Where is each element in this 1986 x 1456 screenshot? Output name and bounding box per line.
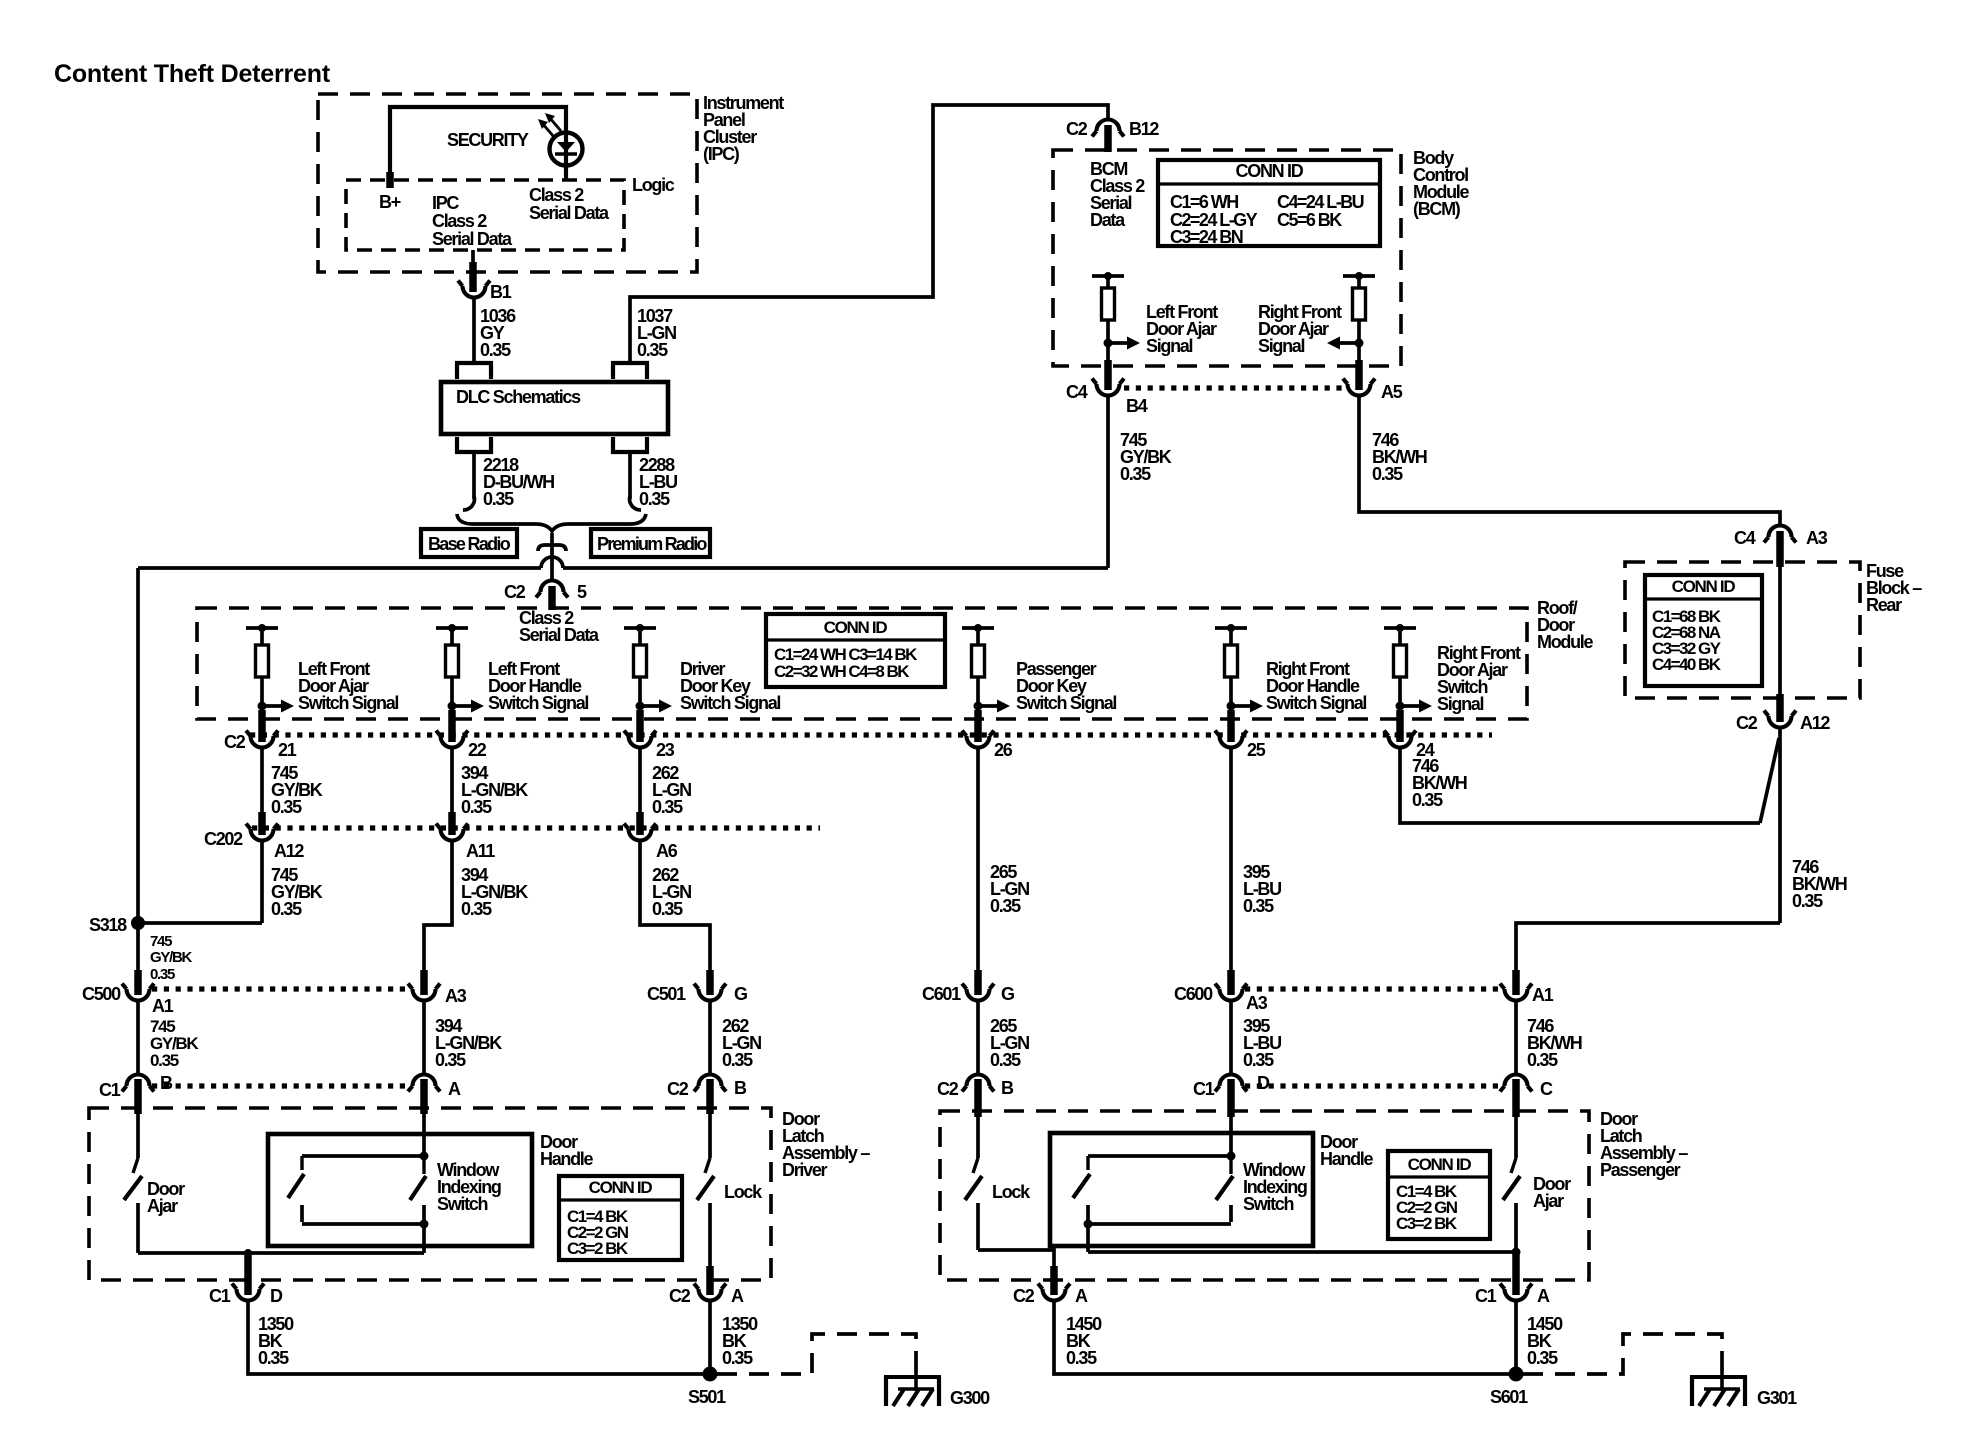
wire lock driver top	[708, 1114, 712, 1158]
svg-text:A12: A12	[274, 841, 304, 861]
resistor passenger door key sw	[972, 645, 985, 677]
svg-text:Ajar: Ajar	[147, 1196, 178, 1216]
label Roof Door Module	[1537, 598, 1593, 652]
wire 746 A12 down	[1778, 727, 1782, 923]
resistor right front door ajar	[1353, 288, 1366, 320]
svg-text:0.35: 0.35	[271, 797, 302, 817]
svg-text:Switch: Switch	[1243, 1194, 1294, 1214]
wire S318 down	[136, 927, 140, 974]
arrow left front door handle sw signal	[452, 700, 484, 713]
svg-text:Switch: Switch	[437, 1194, 488, 1214]
svg-text:B12: B12	[1129, 119, 1159, 139]
wire C1 A to S601	[1514, 1300, 1518, 1374]
brace radios	[457, 514, 646, 531]
rail left front door ajar	[1092, 272, 1124, 280]
pin stub 23	[636, 710, 644, 742]
svg-text:C4: C4	[1734, 528, 1756, 548]
label Logic	[632, 175, 675, 195]
svg-text:Class 2: Class 2	[432, 211, 487, 231]
label Door Ajar passenger	[1533, 1174, 1571, 1211]
svg-text:0.35: 0.35	[483, 489, 514, 509]
wire C2 A to S601	[1054, 1300, 1511, 1374]
svg-text:B1: B1	[490, 282, 512, 302]
svg-text:S318: S318	[89, 915, 127, 935]
switch indexing right passenger	[1216, 1156, 1233, 1222]
wire indexing bottom rail driver	[302, 1222, 424, 1226]
arrow right front door handle sw signal	[1231, 700, 1263, 713]
wire C1 D to S501	[248, 1300, 705, 1374]
label 1036 GY 0.35	[480, 306, 516, 360]
label 394 L-GN/BK 0.35 A3 col	[435, 1016, 502, 1070]
svg-text:Content Theft Deterrent: Content Theft Deterrent	[54, 60, 331, 88]
conn-id box fuse block	[1645, 575, 1762, 686]
label 746 BK/WH 0.35 A5	[1372, 430, 1427, 484]
connector C500 A1	[82, 984, 174, 1017]
svg-text:0.35: 0.35	[480, 340, 511, 360]
label Window Indexing Switch passenger	[1243, 1160, 1307, 1214]
pin B+ stub	[386, 172, 394, 188]
wire indexing out passenger	[1086, 1224, 1090, 1252]
connector pin 22	[436, 731, 487, 761]
switch door ajar passenger	[1503, 1158, 1520, 1252]
wire D into indexing	[1229, 1117, 1233, 1156]
label Class 2 Serial Data logic	[529, 185, 610, 223]
svg-text:5: 5	[577, 582, 587, 602]
svg-text:G300: G300	[950, 1388, 990, 1408]
svg-text:C1: C1	[99, 1080, 121, 1100]
node right front door ajar sw signal	[1396, 702, 1405, 711]
pin stub B lock passenger	[974, 1079, 982, 1117]
svg-text:C2: C2	[504, 582, 526, 602]
label Door Handle driver	[540, 1132, 594, 1169]
title Content Theft Deterrent	[54, 60, 331, 88]
wire door ajar passenger top	[1514, 1117, 1518, 1158]
svg-text:Signal: Signal	[1146, 336, 1193, 356]
pin stub G C601	[974, 970, 982, 995]
svg-text:A: A	[731, 1286, 744, 1306]
svg-text:C5=6 BK: C5=6 BK	[1277, 210, 1342, 230]
splice S601	[1490, 1367, 1528, 1408]
wire radio tap	[550, 533, 554, 580]
pin A12 stub	[1776, 694, 1784, 722]
block Base Radio	[421, 529, 517, 557]
connector B1	[458, 281, 512, 303]
svg-text:GY/BK: GY/BK	[150, 949, 192, 966]
svg-text:B: B	[160, 1073, 173, 1093]
label Lock driver	[724, 1182, 763, 1202]
wire A1p down	[1514, 1000, 1518, 1074]
svg-text:0.35: 0.35	[722, 1348, 753, 1368]
label 746 BK/WH 0.35 A1p col	[1527, 1016, 1582, 1070]
svg-text:C600: C600	[1174, 984, 1213, 1004]
svg-text:0.35: 0.35	[637, 340, 668, 360]
connector row C500	[152, 986, 410, 991]
resistor left front door ajar sw	[256, 645, 269, 677]
wire A into indexing	[422, 1114, 426, 1156]
connector C2 5	[504, 581, 587, 603]
wire door ajar bottom rail driver	[138, 1251, 424, 1255]
node driver latch out	[244, 1249, 252, 1257]
connector A driver latch	[408, 1075, 461, 1100]
pin stub A5	[1355, 360, 1363, 390]
connector C1 B driver	[99, 1073, 173, 1100]
svg-text:Data: Data	[1090, 210, 1126, 230]
svg-text:Logic: Logic	[632, 175, 675, 195]
svg-text:C: C	[1540, 1079, 1553, 1099]
svg-text:Ajar: Ajar	[1533, 1191, 1564, 1211]
pin stub C1 D driver	[244, 1253, 252, 1295]
svg-text:Base Radio: Base Radio	[428, 534, 511, 554]
svg-text:A: A	[1075, 1286, 1088, 1306]
svg-text:0.35: 0.35	[1527, 1050, 1558, 1070]
wire A3 down	[422, 1000, 426, 1074]
ground G301	[1690, 1371, 1797, 1408]
connector A3 C500row	[408, 984, 467, 1007]
svg-text:Serial Data: Serial Data	[529, 203, 610, 223]
wire 746 A5 to fuse block	[1359, 395, 1780, 527]
wire S601 to G301 dashed	[1523, 1334, 1722, 1374]
module box BCM	[1053, 150, 1401, 366]
label 395 L-BU 0.35 col25	[1243, 862, 1281, 916]
svg-text:0.35: 0.35	[652, 899, 683, 919]
wire resistor-pin passenger door key sw	[976, 677, 980, 714]
svg-text:C3=2 BK: C3=2 BK	[567, 1239, 629, 1258]
label 265 L-GN 0.35 col26	[990, 862, 1029, 916]
svg-text:C4=40 BK: C4=40 BK	[1652, 655, 1722, 674]
svg-text:(BCM): (BCM)	[1413, 199, 1461, 219]
wire A1 down	[136, 1000, 140, 1074]
resistor left front door handle sw	[446, 645, 459, 677]
node indexing top driver	[420, 1152, 429, 1161]
pin stub 22	[448, 710, 456, 742]
svg-text:Premium Radio: Premium Radio	[597, 534, 707, 554]
svg-text:C1=6 WH: C1=6 WH	[1170, 192, 1238, 212]
connector C2 A12	[1736, 711, 1830, 734]
wire A12 to S318	[260, 840, 264, 923]
wire door ajar driver top	[136, 1114, 140, 1158]
ground G300	[884, 1371, 990, 1408]
pin stub C2 A passenger	[1050, 1266, 1058, 1295]
wire A6 jog to C501	[640, 840, 710, 974]
wire rail-resistor passenger door key sw	[976, 628, 980, 645]
wire rail to resistor 2	[1357, 276, 1361, 288]
connector row BCM bottom	[1124, 385, 1343, 390]
svg-text:A11: A11	[466, 841, 495, 861]
svg-text:S501: S501	[688, 1387, 726, 1407]
wire resistor to pin B4	[1106, 320, 1110, 368]
wire lock passenger jog	[978, 1250, 1054, 1268]
svg-text:0.35: 0.35	[722, 1050, 753, 1070]
svg-text:Lock: Lock	[724, 1182, 763, 1202]
label 262 L-GN 0.35 A6 col	[652, 865, 691, 919]
wire 746 col24	[1400, 747, 1760, 823]
label 1350 BK 0.35 left	[258, 1314, 294, 1368]
label 2288 L-BU 0.35	[639, 455, 677, 509]
label Window Indexing Switch driver	[437, 1160, 501, 1214]
rail driver door key sw	[624, 624, 656, 632]
pin stub 25	[1227, 710, 1235, 742]
connector C passenger latch	[1500, 1075, 1553, 1100]
connector C202 A11	[436, 824, 495, 862]
wire resistor-pin right front door handle sw	[1229, 677, 1233, 714]
wire IPC output	[471, 250, 475, 282]
block DLC Schematics	[441, 382, 668, 434]
svg-text:0.35: 0.35	[461, 797, 492, 817]
arrow right front door ajar signal	[1327, 337, 1359, 350]
svg-text:A1: A1	[1532, 985, 1554, 1005]
pin stub C500	[134, 970, 142, 995]
wire rail to resistor	[1106, 276, 1110, 288]
svg-text:C4: C4	[1066, 382, 1088, 402]
connector C202 A6	[624, 824, 678, 862]
LED light arrows	[538, 113, 561, 137]
wire resistor-pin driver door key sw	[638, 677, 642, 714]
label left front door ajar sw signal	[298, 659, 398, 713]
pin stub C1 A passenger	[1512, 1252, 1520, 1295]
svg-text:0.35: 0.35	[652, 797, 683, 817]
logic box	[346, 180, 624, 250]
label right front door handle sw signal	[1266, 659, 1366, 713]
pin stub A3 C500	[420, 970, 428, 995]
svg-text:Signal: Signal	[1258, 336, 1305, 356]
connector pin 26	[962, 731, 1013, 761]
svg-text:0.35: 0.35	[258, 1348, 289, 1368]
wire 394 col22	[450, 747, 454, 816]
svg-text:C2: C2	[1013, 1286, 1035, 1306]
svg-text:C501: C501	[647, 984, 686, 1004]
pin stub A driver latch	[420, 1079, 428, 1114]
module box door latch passenger	[940, 1111, 1589, 1280]
svg-text:Switch Signal: Switch Signal	[488, 693, 588, 713]
module box IPC	[318, 94, 697, 272]
connector pin 25	[1215, 731, 1266, 761]
svg-text:CONN ID: CONN ID	[1408, 1155, 1472, 1174]
label B+	[379, 192, 401, 212]
pin stub D passenger latch	[1227, 1079, 1235, 1117]
svg-text:0.35: 0.35	[461, 899, 492, 919]
wire indexing bottom rail passenger	[1088, 1222, 1231, 1226]
svg-text:0.35: 0.35	[1792, 891, 1823, 911]
svg-text:C2: C2	[1736, 713, 1758, 733]
conn-id box door latch driver	[559, 1176, 682, 1260]
svg-text:DLC Schematics: DLC Schematics	[456, 387, 581, 407]
svg-text:25: 25	[1247, 740, 1266, 760]
svg-text:26: 26	[994, 740, 1013, 760]
svg-text:Switch Signal: Switch Signal	[1266, 693, 1366, 713]
svg-text:A3: A3	[445, 986, 467, 1006]
label 1450 BK 0.35 left	[1066, 1314, 1102, 1368]
wire indexing to door ajar passenger	[1088, 1250, 1516, 1254]
pin 5 stub	[548, 586, 556, 610]
connector staple DLC bottom right	[613, 437, 647, 452]
pin stub A1 C600	[1512, 970, 1520, 995]
connector A1 C600row	[1500, 984, 1554, 1006]
svg-text:745: 745	[150, 933, 172, 950]
svg-text:C601: C601	[922, 984, 961, 1004]
switch lock driver	[697, 1158, 714, 1270]
module box Fuse Block Rear	[1625, 562, 1860, 698]
svg-text:Serial Data: Serial Data	[519, 625, 600, 645]
wire A11 jog to A3	[424, 840, 452, 974]
switch door ajar driver	[124, 1158, 142, 1253]
label 394 L-GN/BK 0.35 A11 col	[461, 865, 528, 919]
svg-text:C2: C2	[224, 732, 246, 752]
svg-text:C4=24 L-BU: C4=24 L-BU	[1277, 192, 1364, 212]
label Door Latch Assembly Driver	[782, 1109, 870, 1180]
svg-text:C500: C500	[82, 984, 121, 1004]
svg-text:C1: C1	[1475, 1286, 1497, 1306]
wire 745 col21	[260, 747, 264, 816]
svg-text:C2: C2	[937, 1079, 959, 1099]
pin stub G C501	[706, 970, 714, 995]
label 1350 BK 0.35 right	[722, 1314, 758, 1368]
connector C501 G	[647, 984, 747, 1005]
svg-text:A5: A5	[1381, 382, 1403, 402]
wire rail-resistor left front door ajar sw	[260, 628, 264, 645]
pin stub A3 C600	[1227, 970, 1235, 995]
svg-text:22: 22	[468, 740, 487, 760]
label passenger door key sw signal	[1016, 659, 1116, 713]
svg-text:A6: A6	[656, 841, 678, 861]
connector row C202	[252, 825, 820, 830]
conn-id box roof door module	[766, 614, 945, 687]
node indexing bottom driver	[420, 1220, 429, 1229]
label 745 GY/BK 0.35 A1	[150, 1017, 199, 1070]
wire 746 jog to A1	[1516, 923, 1780, 974]
wire IPC to BCM serial data	[630, 105, 1108, 363]
label 746 BK/WH 0.35 col24	[1412, 756, 1467, 810]
node left front door handle sw signal	[448, 702, 457, 711]
connector row passenger latch	[1245, 1083, 1502, 1088]
label IPC Class 2 Serial Data	[432, 193, 513, 249]
label Door Ajar driver	[147, 1179, 185, 1216]
pin stub B lock driver	[706, 1079, 714, 1114]
node left front door ajar signal	[1104, 339, 1113, 348]
svg-text:S601: S601	[1490, 1387, 1528, 1407]
label Class 2 Serial Data bus	[519, 608, 600, 645]
wire A3p down	[1229, 1000, 1233, 1074]
pin stub B4	[1104, 360, 1112, 390]
connector row C600	[1245, 986, 1502, 991]
label 395 L-BU 0.35 A3p col	[1243, 1016, 1281, 1070]
svg-text:C2: C2	[669, 1286, 691, 1306]
svg-text:A3: A3	[1806, 528, 1828, 548]
label Lock passenger	[992, 1182, 1031, 1202]
svg-text:Switch Signal: Switch Signal	[680, 693, 780, 713]
label 2218 D-BU/WH 0.35	[483, 455, 554, 509]
node indexing bottom passenger	[1084, 1220, 1093, 1229]
svg-text:0.35: 0.35	[1372, 464, 1403, 484]
wire 265 col26	[976, 747, 980, 974]
connector C1 D	[209, 1284, 283, 1307]
svg-text:0.35: 0.35	[150, 966, 175, 983]
wire indexing out driver	[422, 1224, 426, 1253]
label 394 L-GN/BK 0.35 col22	[461, 763, 528, 817]
arrow driver door key sw signal	[640, 700, 672, 713]
svg-text:Passenger: Passenger	[1600, 1160, 1681, 1180]
arrow left front door ajar sw signal	[262, 700, 294, 713]
svg-text:0.35: 0.35	[639, 489, 670, 509]
wire rail-resistor driver door key sw	[638, 628, 642, 645]
block window indexing switch passenger	[1050, 1133, 1313, 1246]
connector staple DLC top right	[613, 363, 647, 379]
wire 2288	[628, 452, 632, 499]
connector C601 G	[922, 984, 1014, 1005]
wire 1036	[472, 297, 476, 363]
svg-text:B: B	[1001, 1078, 1014, 1098]
svg-text:CONN ID: CONN ID	[1236, 161, 1304, 181]
rail right front door ajar	[1343, 272, 1375, 280]
connector C600 A3	[1174, 984, 1268, 1014]
label Door Handle passenger	[1320, 1132, 1374, 1169]
connector row driver latch	[152, 1083, 410, 1088]
switch indexing left driver	[288, 1156, 304, 1222]
svg-text:C1: C1	[209, 1286, 231, 1306]
svg-text:Driver: Driver	[782, 1160, 828, 1180]
connector pin 24	[1384, 731, 1435, 761]
connector staple DLC top left	[457, 363, 491, 379]
label 262 L-GN 0.35 col23	[652, 763, 691, 817]
svg-text:Serial Data: Serial Data	[432, 229, 513, 249]
switch indexing right driver	[410, 1156, 426, 1222]
rail left front door handle sw	[436, 624, 468, 632]
wire 395 col25	[1229, 747, 1233, 974]
wire S318 branch	[138, 921, 262, 925]
resistor driver door key sw	[634, 645, 647, 677]
rail left front door ajar sw	[246, 624, 278, 632]
svg-text:Switch Signal: Switch Signal	[1016, 693, 1116, 713]
junction T-bar	[538, 545, 566, 551]
wire hook left	[463, 496, 474, 510]
svg-text:C3=2 BK: C3=2 BK	[1396, 1214, 1458, 1233]
svg-text:Signal: Signal	[1437, 694, 1484, 714]
svg-text:CONN ID: CONN ID	[1672, 577, 1736, 596]
connector C2 B12	[1066, 119, 1159, 139]
wire 745 B4 down	[1106, 395, 1110, 568]
svg-text:0.35: 0.35	[435, 1050, 466, 1070]
block window indexing switch driver	[268, 1134, 532, 1246]
svg-text:Class 2: Class 2	[529, 185, 584, 205]
svg-text:0.35: 0.35	[1527, 1348, 1558, 1368]
wire C2 A to S501	[708, 1300, 712, 1374]
svg-text:G301: G301	[1757, 1388, 1797, 1408]
rail right front door handle sw	[1215, 624, 1247, 632]
svg-text:D: D	[270, 1286, 283, 1306]
pin stub C2 A driver	[706, 1266, 714, 1295]
switch lock passenger	[965, 1158, 982, 1250]
svg-text:C3=24 BN: C3=24 BN	[1170, 227, 1243, 247]
svg-text:0.35: 0.35	[1066, 1348, 1097, 1368]
connector C1 A passenger	[1475, 1284, 1550, 1307]
svg-text:C2: C2	[1066, 119, 1088, 139]
wire resistor-pin left front door handle sw	[450, 677, 454, 714]
splice S501	[688, 1367, 726, 1408]
pin B12 stub	[1104, 125, 1112, 152]
svg-text:0.35: 0.35	[271, 899, 302, 919]
svg-text:(IPC): (IPC)	[703, 144, 740, 164]
svg-text:C2=32 WH C4=8 BK: C2=32 WH C4=8 BK	[774, 662, 910, 681]
label Body Control Module (BCM)	[1413, 148, 1469, 219]
pin stub C passenger latch	[1512, 1079, 1520, 1117]
svg-text:B4: B4	[1126, 396, 1148, 416]
pin A3 stub	[1776, 531, 1784, 567]
wire bus left drop	[136, 568, 140, 919]
wire 262 col23	[638, 747, 642, 816]
label 745 GY/BK 0.35 A12 col	[271, 865, 323, 919]
connector C2 A driver	[669, 1284, 744, 1307]
module box door latch driver	[89, 1108, 771, 1280]
label driver door key sw signal	[680, 659, 780, 713]
